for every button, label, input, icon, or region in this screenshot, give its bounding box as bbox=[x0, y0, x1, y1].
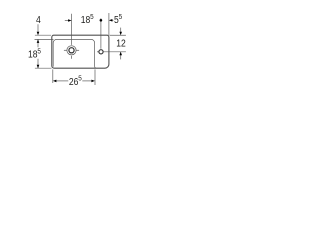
svg-text:265: 265 bbox=[69, 75, 82, 87]
svg-text:185: 185 bbox=[28, 48, 41, 60]
svg-text:12: 12 bbox=[116, 37, 126, 49]
svg-text:55: 55 bbox=[114, 13, 122, 25]
svg-text:4: 4 bbox=[36, 13, 41, 25]
svg-text:185: 185 bbox=[81, 13, 94, 25]
